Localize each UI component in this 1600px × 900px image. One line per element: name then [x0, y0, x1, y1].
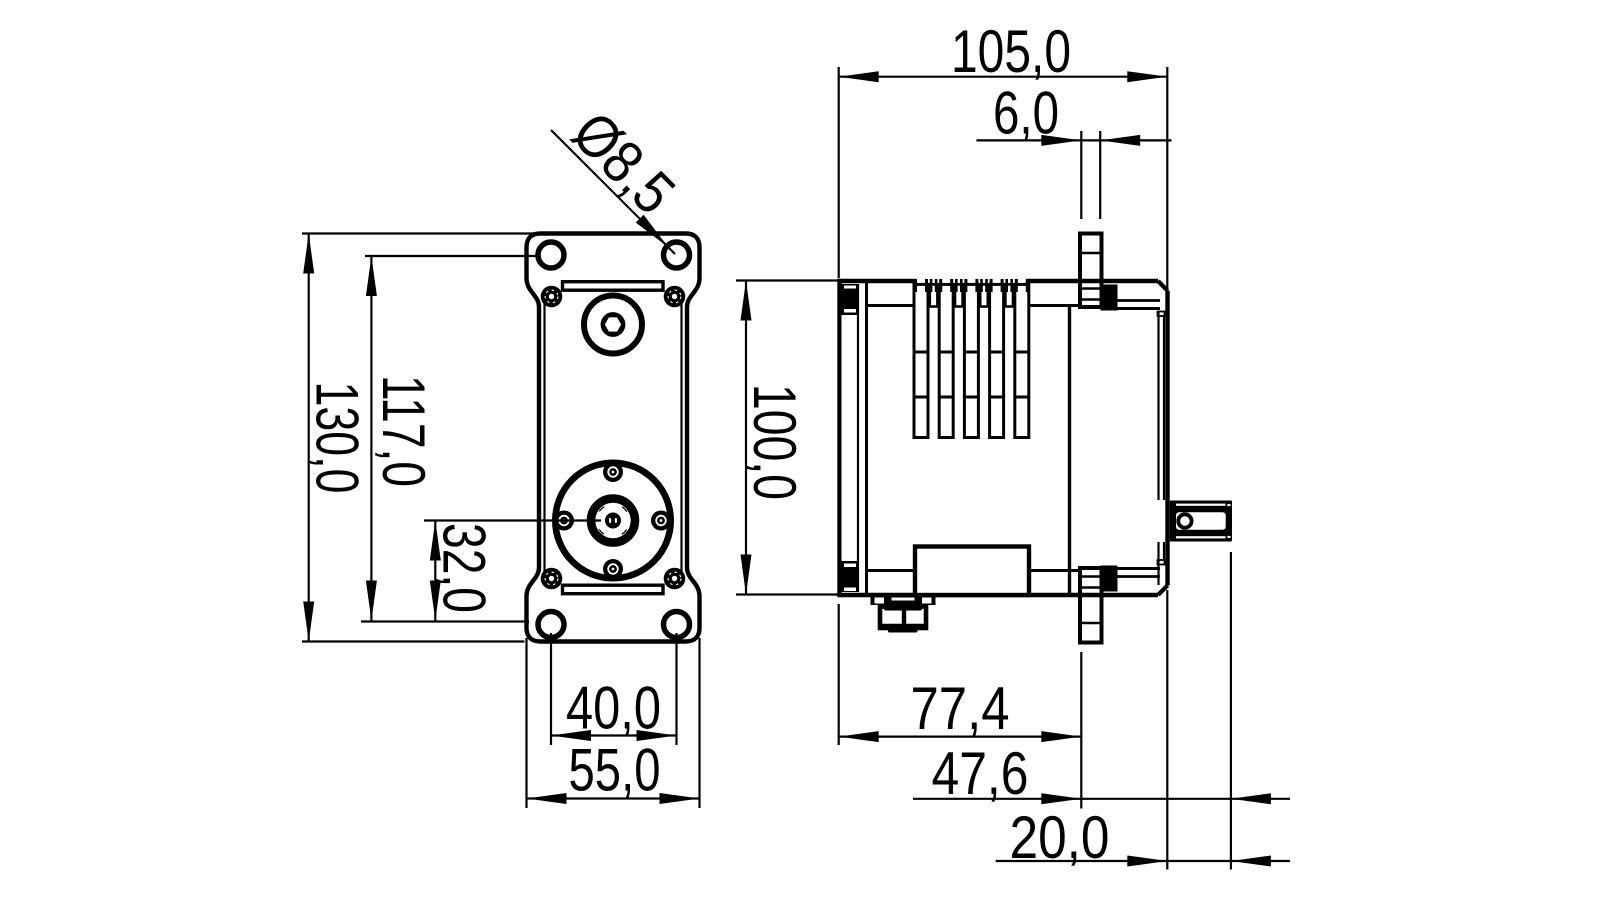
svg-text:6,0: 6,0 — [993, 79, 1059, 146]
svg-text:77,4: 77,4 — [911, 675, 1010, 742]
svg-text:130,0: 130,0 — [304, 382, 371, 494]
svg-text:32,0: 32,0 — [430, 523, 497, 613]
svg-text:100,0: 100,0 — [741, 384, 808, 500]
svg-text:47,6: 47,6 — [932, 740, 1029, 807]
svg-text:117,0: 117,0 — [370, 375, 437, 487]
svg-text:40,0: 40,0 — [566, 675, 661, 742]
svg-text:55,0: 55,0 — [569, 737, 661, 804]
svg-text:20,0: 20,0 — [1010, 804, 1110, 871]
svg-text:105,0: 105,0 — [951, 18, 1071, 85]
